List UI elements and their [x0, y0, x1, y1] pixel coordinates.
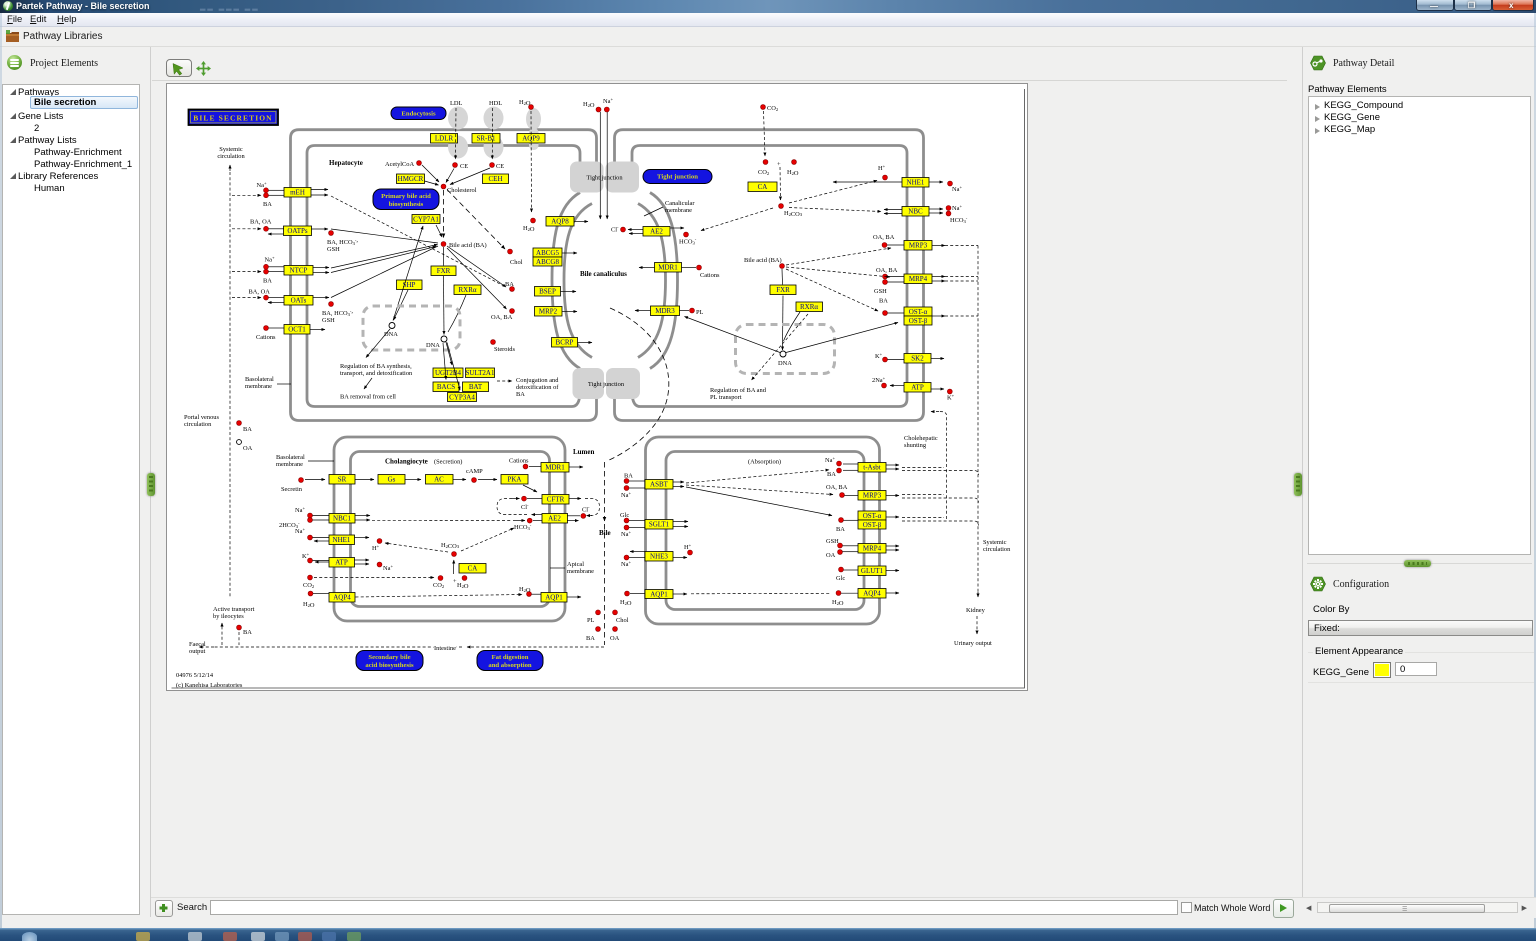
- svg-text:04976 5/12/14: 04976 5/12/14: [176, 672, 214, 679]
- svg-text:CEH: CEH: [489, 175, 503, 183]
- wires ASBT fan: [686, 470, 829, 483]
- svg-text:Systemic: Systemic: [219, 146, 243, 153]
- svg-text:CA: CA: [468, 565, 478, 573]
- gene AC: [426, 475, 454, 485]
- svg-text:Na+: Na+: [825, 456, 835, 465]
- svg-text:Lumen: Lumen: [573, 448, 595, 456]
- svg-text:SK2: SK2: [911, 355, 924, 363]
- gene ABCG5: [533, 248, 562, 257]
- KEGG map frame: [172, 89, 1025, 688]
- gene AQP4 secretion: [329, 593, 355, 603]
- svg-text:Urinary output: Urinary output: [954, 640, 992, 647]
- hepatocyte A outer membrane: [291, 130, 597, 421]
- svg-text:Na+: Na+: [295, 527, 305, 536]
- wires LDL/HDL endocytosis dashes: [455, 108, 458, 159]
- svg-text:Tight junction: Tight junction: [588, 381, 625, 388]
- gene AE2 canaliculus: [643, 227, 670, 237]
- hepatocyte B inner membrane: [632, 146, 907, 407]
- svg-text:BA: BA: [243, 426, 252, 433]
- compound Steroids at BCRP: [491, 340, 496, 345]
- svg-text:FXR: FXR: [437, 267, 451, 275]
- svg-text:NHE1: NHE1: [333, 536, 351, 544]
- svg-text:OATPs: OATPs: [287, 227, 308, 235]
- svg-text:Chol: Chol: [510, 259, 523, 266]
- svg-text:Bile acid (BA): Bile acid (BA): [744, 257, 782, 264]
- gene BCRP: [552, 338, 578, 348]
- svg-text:UGT2B4: UGT2B4: [435, 369, 462, 377]
- map link Fat digestion and absorption: [477, 651, 543, 671]
- wire PKA to CFTR: [523, 485, 537, 492]
- svg-text:OA, BA: OA, BA: [873, 234, 895, 241]
- Cl recycling loop left arc: [497, 499, 527, 515]
- svg-text:GSH: GSH: [322, 317, 335, 324]
- svg-text:Basolateral: Basolateral: [245, 376, 274, 383]
- compound Bile acid (BA): [441, 242, 446, 247]
- svg-text:OST-α: OST-α: [909, 308, 928, 316]
- wire DNA to regulation text: [366, 329, 390, 358]
- gene BAT: [463, 382, 489, 392]
- svg-text:BAT: BAT: [469, 383, 483, 391]
- wires CE to cholesterol: [446, 169, 454, 183]
- compound CO2 top right: [761, 105, 766, 110]
- svg-text:(Secretion): (Secretion): [434, 459, 462, 466]
- tight junction bottom-right blob: [606, 368, 640, 399]
- gene ATP top: [904, 383, 931, 393]
- left splitter grip: [147, 473, 155, 496]
- svg-text:H2O: H2O: [832, 599, 844, 607]
- svg-text:FXR: FXR: [776, 286, 790, 294]
- wire H2CO3 to HCO3 dashed: [461, 528, 514, 551]
- map link Tight junction: [643, 170, 712, 184]
- cholangiocyte absorption cell outer membrane: [646, 437, 880, 624]
- svg-text:H2O: H2O: [303, 601, 315, 609]
- gene MRP4 absorption: [858, 544, 886, 554]
- svg-text:BA: BA: [263, 278, 272, 285]
- svg-text:HCO3-: HCO3-: [514, 523, 532, 532]
- svg-text:membrane: membrane: [245, 383, 272, 390]
- svg-text:NTCP: NTCP: [290, 267, 308, 275]
- svg-text:MRP3: MRP3: [863, 492, 882, 500]
- search row: [151, 897, 1536, 918]
- svg-text:ASBT: ASBT: [650, 481, 669, 489]
- svg-text:Na+: Na+: [952, 185, 962, 194]
- svg-text:Hepatocyte: Hepatocyte: [329, 159, 363, 167]
- svg-text:H2O: H2O: [620, 599, 632, 607]
- wire stubs dots to boxes: [269, 190, 905, 594]
- svg-text:Cholangiocyte: Cholangiocyte: [385, 458, 428, 466]
- svg-text:CE: CE: [460, 163, 468, 170]
- compound BA at OST absorption: [839, 518, 844, 523]
- gene SR-B1: [472, 134, 500, 144]
- svg-text:CYP3A4: CYP3A4: [449, 394, 475, 402]
- gene AQP1 absorption: [645, 590, 673, 599]
- compound Chol at ABCG: [508, 249, 513, 254]
- compound BA dot portal: [237, 421, 242, 426]
- svg-text:DNA: DNA: [384, 331, 398, 338]
- svg-text:Chol: Chol: [616, 617, 629, 624]
- wires OATPs arrows: [312, 228, 329, 230]
- svg-text:OST-β: OST-β: [909, 317, 928, 325]
- svg-text:H2O: H2O: [583, 101, 595, 109]
- svg-text:OA, BA: OA, BA: [876, 267, 898, 274]
- gene MRP3 top: [904, 241, 932, 251]
- svg-text:output: output: [189, 648, 206, 655]
- svg-text:DNA: DNA: [426, 342, 440, 349]
- gene ATP secretion: [329, 558, 355, 568]
- gene t-Asbt: [858, 463, 886, 473]
- gene BSEP: [535, 287, 561, 297]
- gene MRP3 absorption: [858, 491, 886, 501]
- gene MDR3: [651, 306, 680, 316]
- svg-text:SGLT1: SGLT1: [649, 521, 670, 529]
- wire cholesterol to bile acid: [443, 190, 445, 238]
- gene RXRa left: [454, 285, 481, 295]
- svg-text:H+: H+: [878, 164, 886, 173]
- wire bile acid to FXR to DNA: [443, 247, 445, 266]
- menu bar: [0, 13, 1536, 27]
- svg-text:Na+: Na+: [383, 564, 393, 573]
- gene OATPs: [284, 226, 312, 236]
- tight junction top-right blob: [606, 162, 640, 193]
- svg-text:OA, BA: OA, BA: [826, 484, 848, 491]
- svg-text:SR-B1: SR-B1: [476, 135, 496, 143]
- bile canaliculus right outer arc: [650, 193, 678, 369]
- svg-text:2Na+: 2Na+: [872, 376, 886, 385]
- svg-text:K+: K+: [947, 393, 955, 402]
- svg-text:Na+: Na+: [603, 97, 613, 106]
- compound Glc at GLUT1: [839, 567, 844, 572]
- gene CA top: [748, 182, 777, 192]
- svg-text:Basolateral: Basolateral: [276, 454, 305, 461]
- gene CYP3A4: [448, 393, 477, 402]
- wire CO2+H2O to H2CO3: [779, 167, 782, 200]
- gene OST-alpha absorption: [858, 511, 886, 520]
- compound CO2 chain secretion: [308, 575, 313, 580]
- gene Gs: [378, 475, 405, 485]
- hepatocyte B outer membrane: [615, 130, 924, 421]
- svg-text:PKA: PKA: [507, 476, 521, 484]
- canaliculus entry channel wires: [599, 112, 601, 219]
- svg-text:BA: BA: [879, 298, 888, 305]
- compound OA circle portal: [237, 440, 242, 445]
- svg-text:membrane: membrane: [665, 207, 692, 214]
- svg-text:H2O: H2O: [519, 586, 531, 594]
- wires MDR1 canaliculus: [639, 267, 655, 269]
- cholangiocyte secretion cell outer membrane: [334, 437, 565, 621]
- gene SHP: [397, 280, 423, 290]
- title box BILE SECRETION: [189, 110, 279, 126]
- svg-text:BA: BA: [505, 281, 514, 288]
- gene mEH: [284, 188, 311, 198]
- svg-text:HMGCR: HMGCR: [398, 175, 424, 183]
- title bar: [0, 0, 1536, 13]
- compound Cl at CFTR: [522, 496, 527, 501]
- svg-text:CYP7A1: CYP7A1: [413, 216, 439, 224]
- svg-text:CFTR: CFTR: [547, 496, 565, 504]
- gene NHE3: [645, 552, 673, 562]
- wires MDR3: [635, 310, 651, 312]
- wire bile outflow curve: [607, 308, 669, 461]
- gene OCT1: [284, 325, 310, 335]
- gene NTCP: [284, 266, 313, 276]
- bile canaliculus right inner arc: [638, 204, 666, 358]
- gene NHE1 top: [902, 178, 929, 188]
- svg-text:NBC1: NBC1: [333, 515, 351, 523]
- node DNA 2: [441, 336, 447, 342]
- canvas toolbar: [166, 57, 1286, 81]
- svg-text:HCO3-: HCO3-: [950, 216, 968, 225]
- compound CE dots: [453, 163, 458, 168]
- gene AE2 secretion: [542, 514, 568, 524]
- compound dot at OCT1: [264, 326, 269, 331]
- svg-text:BA, HCO3-,: BA, HCO3-,: [322, 308, 353, 318]
- cholangiocyte absorption cell inner membrane: [666, 452, 864, 610]
- svg-text:Intestine: Intestine: [434, 645, 456, 652]
- svg-text:biosynthesis: biosynthesis: [389, 201, 424, 208]
- wire RXRa to DNA: [448, 295, 466, 332]
- gene AQP1 secretion: [541, 593, 567, 603]
- gene ASBT: [645, 480, 673, 490]
- tight junction top-left blob: [570, 162, 604, 193]
- wires CFTR: [569, 498, 581, 500]
- gene LDLR: [431, 134, 458, 144]
- compound H2CO3 secretion: [452, 552, 457, 557]
- svg-text:Cl-: Cl-: [521, 503, 529, 512]
- svg-text:MDR3: MDR3: [655, 307, 675, 315]
- DNA region left cell: [363, 306, 460, 350]
- svg-text:H+: H+: [372, 544, 380, 553]
- gene NHE1 secretion: [329, 535, 355, 545]
- wire dashed stubs to left transporters: [232, 194, 261, 196]
- wire systemic circulation dashed vertical: [229, 172, 231, 597]
- svg-text:CE: CE: [496, 163, 504, 170]
- left tree: [2, 84, 140, 915]
- svg-text:H2O: H2O: [457, 582, 469, 590]
- svg-text:H2CO3: H2CO3: [441, 542, 460, 550]
- svg-text:acid biosynthesis: acid biosynthesis: [365, 662, 414, 669]
- svg-text:OST-β: OST-β: [863, 521, 882, 529]
- svg-text:OA, BA: OA, BA: [491, 314, 513, 321]
- svg-text:GLUT1: GLUT1: [861, 567, 884, 575]
- right splitter grip: [1294, 473, 1302, 496]
- svg-text:BA: BA: [586, 635, 595, 642]
- svg-text:BA, OA: BA, OA: [249, 289, 271, 296]
- svg-text:AQP1: AQP1: [650, 591, 668, 599]
- svg-text:AQP4: AQP4: [333, 594, 351, 602]
- svg-text:CA: CA: [758, 183, 768, 191]
- svg-text:CO2: CO2: [433, 582, 445, 589]
- wire H2CO3 to H+ dashed: [385, 543, 448, 552]
- svg-text:Kidney: Kidney: [966, 607, 986, 614]
- svg-text:BA: BA: [624, 473, 633, 480]
- svg-text:circulation: circulation: [983, 546, 1011, 553]
- svg-text:Cations: Cations: [509, 458, 529, 465]
- svg-text:BA: BA: [827, 471, 836, 478]
- svg-text:H2CO3: H2CO3: [784, 210, 803, 218]
- svg-text:H2O: H2O: [787, 169, 799, 177]
- svg-text:OA: OA: [243, 445, 253, 452]
- gene MRP2: [535, 307, 563, 317]
- svg-text:Apical: Apical: [567, 561, 584, 568]
- svg-text:AQP4: AQP4: [863, 590, 881, 598]
- Cl recycling loop right arc: [585, 499, 600, 516]
- svg-text:RXRα: RXRα: [458, 286, 476, 294]
- gene CYP7A1: [412, 215, 440, 224]
- gene CEH: [483, 174, 509, 184]
- svg-text:AcetylCoA: AcetylCoA: [385, 161, 414, 168]
- DNA region right cell: [736, 325, 835, 374]
- gene NBC1: [329, 514, 355, 524]
- map link Secondary bile acid biosynthesis: [356, 651, 423, 671]
- svg-text:RXRα: RXRα: [800, 303, 818, 311]
- tight junction bottom-left blob: [573, 368, 605, 399]
- svg-text:Systemic: Systemic: [983, 539, 1007, 546]
- svg-text:Regulation of BA synthesis,: Regulation of BA synthesis,: [340, 363, 412, 370]
- svg-text:Na+: Na+: [295, 506, 305, 515]
- gene UGT2B4: [433, 368, 463, 378]
- svg-text:AQP1: AQP1: [545, 594, 563, 602]
- svg-text:Cholesterol: Cholesterol: [447, 187, 477, 194]
- gene AQP9: [517, 134, 545, 144]
- svg-text:BSEP: BSEP: [539, 288, 556, 296]
- svg-text:MRP3: MRP3: [909, 242, 928, 250]
- svg-text:PL: PL: [587, 617, 595, 624]
- svg-text:BA removal from cell: BA removal from cell: [340, 394, 396, 401]
- svg-text:AC: AC: [434, 476, 444, 484]
- svg-text:CO2: CO2: [758, 169, 770, 176]
- svg-text:CO2: CO2: [767, 105, 779, 112]
- svg-text:OA: OA: [826, 552, 836, 559]
- gene ABCG8: [533, 257, 562, 266]
- svg-text:MRP4: MRP4: [863, 545, 882, 553]
- gene AQP8: [546, 217, 574, 227]
- taskbar: [0, 928, 1536, 941]
- bile canaliculus left outer arc: [552, 193, 580, 369]
- svg-text:PL: PL: [696, 309, 704, 316]
- gene FXR right: [770, 285, 796, 295]
- gene OST-alpha top: [904, 307, 932, 316]
- gene SR: [329, 475, 355, 485]
- svg-text:MRP2: MRP2: [539, 308, 558, 316]
- wire RXRa right to DNA: [784, 312, 801, 341]
- compound Secretin: [299, 478, 304, 483]
- wire DNA to regulation of BA and PL: [752, 314, 809, 380]
- wire DNA to CYP7A1: [393, 226, 423, 321]
- wire mEH dashed to BSEP: [331, 196, 504, 286]
- svg-text:AQP8: AQP8: [551, 218, 569, 226]
- compound dots at mEH: [264, 188, 269, 193]
- svg-text:Active transport: Active transport: [213, 606, 255, 613]
- compound PL Chol BA OA at duct: [596, 610, 601, 615]
- svg-text:SR: SR: [338, 476, 347, 484]
- pathway libraries toolbar: [0, 27, 1536, 47]
- main canvas: [166, 83, 1028, 691]
- svg-text:AE2: AE2: [650, 228, 663, 236]
- wires AQP1 absorption: [625, 591, 630, 596]
- svg-text:OATs: OATs: [291, 297, 307, 305]
- svg-text:BA: BA: [516, 391, 525, 398]
- svg-text:GSH: GSH: [826, 538, 839, 545]
- svg-text:ABCG8: ABCG8: [536, 258, 559, 266]
- svg-text:Regulation of BA and: Regulation of BA and: [710, 387, 767, 394]
- svg-text:CO2: CO2: [303, 582, 315, 589]
- svg-text:Conjugation and: Conjugation and: [516, 377, 559, 384]
- svg-text:BA, OA: BA, OA: [250, 219, 272, 226]
- svg-text:(c) Kanehisa Laboratories: (c) Kanehisa Laboratories: [176, 682, 243, 689]
- svg-text:cAMP: cAMP: [466, 468, 483, 475]
- endocytosis vesicle at LDLR: [448, 107, 468, 130]
- map link Primary bile acid biosynthesis: [373, 189, 439, 210]
- compound Cholesterol: [441, 184, 446, 189]
- gene MDR1 canaliculus: [655, 263, 682, 273]
- svg-text:by ileocytes: by ileocytes: [213, 613, 244, 620]
- svg-text:ATP: ATP: [335, 559, 348, 567]
- wire cholesterol to ABCG: [447, 190, 505, 250]
- wire AcetylCoA to cholesterol: [422, 165, 439, 182]
- endocytosis vesicle at SR-B1: [484, 107, 504, 130]
- node DNA right: [780, 351, 786, 357]
- svg-text:membrane: membrane: [276, 461, 303, 468]
- pathway detail header: [1308, 55, 1508, 71]
- svg-text:LDLR: LDLR: [435, 135, 454, 143]
- svg-text:SULT2A1: SULT2A1: [466, 369, 495, 377]
- svg-text:GSH: GSH: [327, 246, 340, 253]
- svg-text:t-Asbt: t-Asbt: [863, 464, 881, 472]
- svg-text:Cholehepatic: Cholehepatic: [904, 435, 938, 442]
- svg-text:HDL: HDL: [489, 100, 502, 107]
- svg-text:Tight junction: Tight junction: [657, 174, 698, 181]
- compound OA BA at MRP2: [510, 309, 515, 314]
- svg-text:Secretin: Secretin: [281, 486, 303, 493]
- svg-text:BACS: BACS: [437, 383, 455, 391]
- svg-text:BCRP: BCRP: [556, 339, 574, 347]
- svg-text:Portal venous: Portal venous: [184, 414, 219, 421]
- gene SULT2A1: [466, 368, 495, 378]
- svg-text:OA: OA: [610, 635, 620, 642]
- svg-text:Faecal: Faecal: [189, 641, 206, 648]
- node DNA 1: [389, 323, 395, 329]
- svg-text:Primary bile acid: Primary bile acid: [381, 193, 431, 200]
- svg-text:ABCG5: ABCG5: [536, 249, 559, 257]
- gene AQP4 absorption: [858, 589, 886, 599]
- svg-text:BA: BA: [263, 201, 272, 208]
- wires DNA to detox genes: [446, 342, 452, 365]
- svg-text:and absorption: and absorption: [488, 662, 532, 669]
- bile canaliculus left inner arc: [564, 204, 592, 358]
- svg-text:Cations: Cations: [256, 334, 276, 341]
- svg-text:Steroids: Steroids: [494, 346, 515, 353]
- svg-text:+: +: [777, 161, 781, 168]
- gene HMGCR: [397, 174, 425, 184]
- gene SGLT1: [645, 520, 673, 530]
- gene CFTR: [542, 495, 569, 505]
- svg-text:Glc: Glc: [620, 512, 629, 519]
- svg-text:H+: H+: [684, 543, 692, 552]
- svg-text:H2O: H2O: [523, 225, 535, 233]
- svg-text:Bile acid (BA): Bile acid (BA): [449, 242, 487, 249]
- wires SR Gs AC PKA cascade: [355, 479, 374, 481]
- wires NTCP arrows: [313, 267, 329, 269]
- wire H2O to AQP8 dashed: [530, 111, 533, 212]
- svg-text:BA, HCO3-,: BA, HCO3-,: [327, 237, 358, 247]
- wires NHE3: [630, 551, 645, 553]
- svg-text:membrane: membrane: [567, 568, 594, 575]
- svg-text:circulation: circulation: [184, 421, 212, 428]
- project elements header: [5, 55, 145, 71]
- svg-text:HCO3-: HCO3-: [679, 237, 697, 246]
- wire CYP7A1 to bile acid: [436, 225, 442, 237]
- svg-text:mEH: mEH: [290, 189, 305, 197]
